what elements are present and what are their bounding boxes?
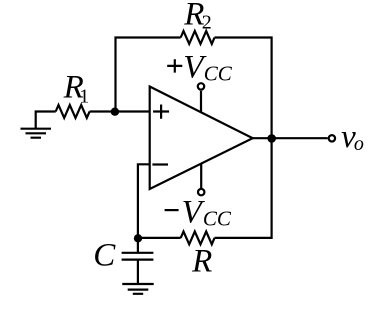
wire: -VCC terminal lead bbox=[200, 164, 202, 189]
label vo bbox=[341, 119, 364, 155]
resistor R1 bbox=[56, 105, 90, 118]
ground (left, at R1) bbox=[21, 129, 52, 138]
svg-text:R: R bbox=[191, 244, 212, 280]
svg-text:C: C bbox=[93, 238, 116, 274]
wire: op-amp - input down to capacitor C top bbox=[138, 164, 150, 253]
svg-text:2: 2 bbox=[202, 11, 212, 33]
svg-text:CC: CC bbox=[203, 207, 232, 231]
node A junction dot bbox=[111, 108, 119, 116]
svg-text:CC: CC bbox=[204, 61, 233, 85]
resistor R2 bbox=[181, 31, 215, 44]
wire bottom-left: R left lead to node C bbox=[138, 237, 181, 239]
node C junction dot bbox=[134, 234, 142, 242]
wire: +VCC terminal lead bbox=[200, 91, 202, 113]
op-amp + input marker bbox=[153, 105, 169, 119]
op-amp U1 triangle bbox=[150, 87, 253, 190]
label R2 bbox=[183, 0, 211, 33]
svg-text:1: 1 bbox=[79, 86, 89, 108]
vo open terminal bbox=[329, 135, 335, 141]
op-amp - input marker bbox=[152, 163, 168, 165]
output node junction dot bbox=[267, 134, 276, 143]
wire: op-amp output to vo terminal bbox=[253, 137, 328, 139]
wire: ground lead to R1 bbox=[36, 112, 56, 129]
label R1 bbox=[63, 70, 90, 108]
wire: capacitor bottom to ground bbox=[137, 260, 139, 284]
+VCC open terminal bbox=[198, 83, 204, 89]
label -VCC bbox=[165, 194, 232, 230]
wire: R1 to op-amp + input through node A bbox=[90, 110, 150, 112]
wire right rail lower: output node down to R right lead bbox=[215, 138, 272, 238]
capacitor C plates bbox=[122, 253, 154, 260]
wire top-right: R2 right lead down right rail to output node bbox=[215, 38, 272, 139]
resistor R bbox=[181, 232, 215, 245]
wire top-left: R2 left lead, down to node A bbox=[116, 38, 181, 112]
ground (bottom, at C) bbox=[122, 284, 153, 294]
svg-text:o: o bbox=[354, 133, 364, 155]
-VCC open terminal bbox=[198, 189, 204, 195]
label +VCC bbox=[167, 49, 233, 85]
